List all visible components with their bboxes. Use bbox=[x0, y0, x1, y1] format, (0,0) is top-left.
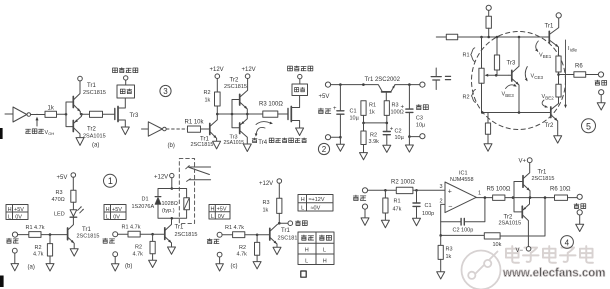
wire top rail left bbox=[331, 85, 383, 92]
circled 2 bbox=[318, 143, 329, 154]
svg-text:≈0V: ≈0V bbox=[311, 205, 321, 211]
svg-text:+: + bbox=[390, 127, 394, 133]
svg-text:R1 10k: R1 10k bbox=[185, 120, 205, 126]
svg-text:L: L bbox=[301, 205, 304, 211]
terminal output bottom bbox=[599, 90, 604, 95]
ground input bbox=[11, 253, 19, 271]
svg-text:Tr1: Tr1 bbox=[87, 83, 96, 89]
wire top rail right bbox=[395, 84, 420, 86]
terminal V+ bbox=[519, 158, 533, 165]
svg-text:+: + bbox=[401, 105, 405, 111]
watermark logo circle bbox=[462, 251, 501, 289]
resistor top bbox=[486, 16, 491, 28]
svg-text:R2 100Ω: R2 100Ω bbox=[391, 180, 415, 186]
svg-text:Tr2: Tr2 bbox=[504, 215, 513, 221]
node wiper bbox=[495, 74, 498, 77]
circled 1 bbox=[104, 174, 117, 187]
svg-text:1S2076A: 1S2076A bbox=[132, 204, 155, 210]
ground Tr1 bbox=[213, 141, 221, 149]
table H/L levels bbox=[104, 205, 126, 221]
wire node R6 bbox=[558, 72, 560, 84]
diode D1 1S2076A bbox=[132, 197, 161, 211]
svg-text:(b): (b) bbox=[125, 264, 132, 270]
svg-text:+5V: +5V bbox=[319, 94, 330, 100]
svg-text:H: H bbox=[323, 258, 327, 264]
node R1 bbox=[362, 83, 365, 86]
wire bbox=[171, 178, 173, 189]
resistor R1 4.7k bbox=[18, 225, 50, 238]
svg-text:L: L bbox=[106, 214, 109, 220]
terminal input bottom bbox=[362, 204, 367, 209]
label 负荷电源 bbox=[288, 66, 313, 71]
resistor gate bbox=[90, 111, 103, 117]
svg-text:C3: C3 bbox=[416, 116, 423, 122]
terminal output bottom bbox=[420, 134, 425, 139]
svg-text:R6: R6 bbox=[575, 64, 583, 70]
node R1 bbox=[384, 189, 387, 192]
svg-text:R2: R2 bbox=[204, 90, 211, 96]
svg-text:0V: 0V bbox=[218, 214, 225, 220]
svg-text:2SA1015: 2SA1015 bbox=[224, 140, 245, 146]
resistor R4 10k feedback bbox=[441, 198, 545, 248]
terminal input bottom bbox=[325, 135, 330, 140]
label R2 brace bbox=[463, 89, 476, 102]
node coil top bbox=[171, 187, 174, 190]
resistor R3 470 ohm bbox=[52, 190, 77, 203]
label 输入 bbox=[318, 108, 331, 113]
wire base bbox=[50, 234, 68, 236]
svg-text:R2: R2 bbox=[239, 245, 246, 251]
node bbox=[518, 111, 521, 114]
svg-text:2: 2 bbox=[322, 145, 327, 154]
svg-text:R3: R3 bbox=[263, 200, 270, 206]
load box 负荷 bbox=[292, 79, 308, 96]
capacitor C1 100p bbox=[413, 190, 434, 218]
resistor input bbox=[446, 34, 457, 40]
node bbox=[151, 233, 154, 236]
svg-text:H: H bbox=[106, 207, 110, 213]
ground Tr2 bbox=[76, 138, 84, 146]
svg-text:R2: R2 bbox=[35, 245, 42, 251]
terminal +12V left bbox=[210, 67, 224, 78]
label 负荷电压 bbox=[113, 68, 138, 73]
terminal output bottom bbox=[577, 210, 582, 215]
relay coil loop wires bbox=[158, 189, 187, 219]
svg-text:470Ω: 470Ω bbox=[52, 197, 65, 203]
label 输入 bbox=[103, 238, 115, 243]
svg-text:(typ.): (typ.) bbox=[162, 208, 175, 214]
ground R2 bbox=[253, 262, 261, 269]
wire bbox=[72, 202, 74, 209]
svg-text:+5V: +5V bbox=[14, 207, 24, 213]
terminal output top bbox=[420, 82, 425, 87]
resistor R2 4.7k bbox=[33, 235, 53, 264]
transistor Tr1 2SC1815 bbox=[68, 227, 100, 249]
node bbox=[386, 122, 389, 125]
svg-text:Tr4: Tr4 bbox=[258, 140, 267, 146]
transistor Tr2 2SC1815 bbox=[224, 78, 248, 115]
LED D bbox=[54, 206, 84, 217]
node C1 bbox=[339, 83, 342, 86]
svg-text:4.7k: 4.7k bbox=[237, 252, 248, 258]
wire base bbox=[257, 234, 270, 236]
svg-text:R1: R1 bbox=[463, 53, 470, 59]
edge mark bottom bbox=[0, 276, 4, 288]
label 给Tr4的栅极充放电 bbox=[252, 138, 306, 146]
node bottom bbox=[408, 135, 411, 138]
ground Tr1 bbox=[70, 249, 78, 256]
svg-text:R1: R1 bbox=[394, 199, 401, 205]
svg-text:10µ: 10µ bbox=[416, 123, 426, 129]
svg-text:(c): (c) bbox=[231, 263, 238, 269]
svg-text:2: 2 bbox=[440, 199, 443, 205]
circled 3 bbox=[160, 85, 171, 96]
wire bases riser bbox=[232, 100, 240, 128]
svg-text:R1: R1 bbox=[369, 103, 376, 109]
wire bbox=[331, 136, 341, 138]
resistor R2 3.9k bbox=[361, 123, 379, 153]
ground lower bbox=[484, 144, 492, 151]
resistor R3 1k bbox=[263, 183, 282, 223]
svg-text:10µ: 10µ bbox=[395, 135, 405, 141]
svg-text:www.elecfans.com: www.elecfans.com bbox=[502, 268, 605, 280]
potentiometer branch R1/R2 bbox=[479, 37, 484, 113]
label R1 brace bbox=[463, 48, 475, 62]
edge mark top bbox=[0, 128, 3, 139]
svg-text:Tr1: Tr1 bbox=[538, 170, 547, 176]
resistor R2 1k bbox=[204, 90, 221, 106]
node C3 bbox=[408, 83, 411, 86]
wire dashed bbox=[166, 128, 187, 130]
resistor R6 bbox=[559, 64, 599, 78]
wire output rail bbox=[476, 197, 554, 199]
resistor R6 10 ohm bbox=[550, 187, 577, 201]
terminal collector Tr1 bbox=[78, 76, 83, 81]
terminal +12V right bbox=[242, 67, 256, 78]
transistor Tr2 2SA1015 bbox=[73, 114, 105, 139]
resistor R1 10k bbox=[185, 120, 205, 133]
svg-text:1: 1 bbox=[478, 191, 481, 197]
transistor Tr1 2SC1815 bbox=[191, 114, 218, 148]
resistor R1 4.7k bbox=[222, 225, 257, 238]
node bbox=[49, 233, 52, 236]
ground input bbox=[111, 257, 119, 271]
node R3 bbox=[439, 234, 442, 237]
svg-text:Tr3: Tr3 bbox=[130, 113, 139, 119]
ground output bbox=[576, 215, 584, 232]
node R4 bbox=[544, 196, 547, 199]
dashed equivalent circle bbox=[472, 32, 566, 130]
ground Tr2 bbox=[554, 136, 562, 143]
capacitor C2 100p feedback bbox=[441, 198, 485, 234]
resistor 1k bbox=[45, 106, 57, 118]
node C1 bbox=[415, 189, 418, 192]
wire top rail bbox=[458, 36, 550, 38]
svg-text:R1 4.7k: R1 4.7k bbox=[225, 225, 244, 231]
node bbox=[487, 36, 490, 39]
watermark text 电子发烧友 bbox=[506, 246, 593, 263]
terminal +5V input bbox=[319, 82, 331, 100]
svg-text:1k: 1k bbox=[205, 98, 211, 104]
wire input bbox=[5, 113, 13, 115]
label 输入 bbox=[7, 238, 19, 243]
svg-text:Tr2: Tr2 bbox=[545, 123, 554, 129]
svg-text:+12V: +12V bbox=[154, 175, 168, 181]
svg-text:H: H bbox=[211, 207, 215, 213]
terminal top bbox=[486, 5, 491, 10]
wire emitters to gate resistor bbox=[82, 113, 90, 115]
svg-text:BE3: BE3 bbox=[505, 93, 514, 98]
op-amp IC1 NJM4558 bbox=[440, 171, 482, 213]
terminal input lower bbox=[113, 252, 118, 257]
node emitters bbox=[80, 113, 83, 116]
end-of-article square bbox=[301, 271, 306, 277]
label 输入 bbox=[207, 239, 219, 244]
terminal +12V bbox=[259, 179, 282, 187]
transistor Tr1 bbox=[545, 18, 559, 56]
wire output bbox=[279, 222, 288, 224]
wire bbox=[31, 113, 45, 115]
label 输出 bbox=[574, 203, 586, 208]
terminal input bbox=[217, 232, 222, 237]
svg-text:L: L bbox=[211, 214, 214, 220]
table truth bbox=[298, 232, 334, 265]
svg-text:R3: R3 bbox=[56, 190, 63, 196]
svg-text:BE2: BE2 bbox=[545, 95, 554, 100]
relay outline dashed bbox=[179, 159, 194, 224]
terminal input top bbox=[362, 188, 367, 193]
label 输出 bbox=[296, 220, 308, 225]
svg-text:NJM4558: NJM4558 bbox=[450, 177, 474, 183]
wire bottom rail bbox=[482, 112, 551, 114]
label VBE3 arc bbox=[502, 84, 517, 98]
label 输出 bbox=[416, 104, 428, 109]
ground output bbox=[597, 95, 605, 110]
terminal 负荷电源 bbox=[298, 74, 302, 78]
relay contact bbox=[186, 166, 211, 182]
resistor R3 1k bbox=[438, 235, 452, 271]
ground Tr4 bbox=[296, 128, 304, 136]
wire junction bbox=[364, 115, 387, 123]
svg-text:10µ: 10µ bbox=[350, 116, 360, 122]
charge arrow upper bbox=[256, 122, 273, 125]
svg-text:R2: R2 bbox=[370, 133, 377, 139]
svg-text:R5 100Ω: R5 100Ω bbox=[487, 187, 511, 193]
node base junction bbox=[65, 113, 68, 116]
resistor R3 100 ohm bbox=[384, 101, 404, 116]
transistor Tr1 2SC1815 bbox=[165, 218, 198, 247]
wire main rail bbox=[217, 113, 262, 115]
ground R2 bbox=[360, 153, 368, 160]
resistor R5 100 ohm bbox=[487, 187, 511, 201]
label 高电平 VOH with arrow bbox=[26, 117, 55, 136]
wire input bbox=[142, 128, 149, 130]
svg-text:R1 4.7k: R1 4.7k bbox=[122, 224, 141, 230]
svg-text:C2: C2 bbox=[395, 129, 402, 135]
wire bbox=[201, 128, 210, 130]
wire bases riser bbox=[513, 182, 523, 212]
svg-text:BE1: BE1 bbox=[543, 54, 552, 59]
resistor R1 4.7k bbox=[118, 224, 153, 237]
node coil bottom bbox=[171, 217, 174, 220]
svg-text:Tr1: Tr1 bbox=[175, 225, 184, 231]
svg-text:0V: 0V bbox=[113, 214, 120, 220]
load box 负荷 bbox=[117, 80, 135, 98]
svg-text:1k: 1k bbox=[48, 106, 55, 112]
svg-text:Tr2: Tr2 bbox=[230, 78, 239, 84]
transistor Tr1 2SC1815 bbox=[270, 223, 301, 247]
svg-text:Tr3: Tr3 bbox=[507, 61, 516, 67]
resistor R1 1k bbox=[361, 101, 376, 116]
svg-text:1k: 1k bbox=[263, 207, 269, 213]
svg-text:R2: R2 bbox=[135, 244, 142, 250]
table H/L levels bbox=[6, 205, 28, 221]
svg-text:0V: 0V bbox=[15, 214, 22, 220]
label 1028 ohm typ bbox=[162, 201, 178, 214]
svg-text:2SC1815: 2SC1815 bbox=[224, 84, 247, 90]
ground input bbox=[336, 137, 344, 151]
resistor R1 47k bbox=[383, 190, 402, 220]
wire input left bbox=[436, 36, 446, 38]
svg-text:2SA1015: 2SA1015 bbox=[499, 221, 522, 227]
svg-text:+5V: +5V bbox=[217, 207, 227, 213]
svg-text:2SC1815: 2SC1815 bbox=[77, 234, 100, 240]
ground R1 bbox=[381, 220, 389, 227]
inverter gate U1 bbox=[13, 107, 31, 122]
ground Tr3 bbox=[121, 127, 129, 135]
wire to Tr3 base bbox=[496, 74, 509, 76]
svg-text:(a): (a) bbox=[28, 265, 35, 271]
svg-text:V+: V+ bbox=[519, 159, 527, 165]
svg-text:+: + bbox=[333, 106, 337, 112]
svg-text:C2 100p: C2 100p bbox=[453, 228, 474, 234]
charge arrow lower bbox=[255, 127, 265, 136]
middle branch resistor bbox=[494, 37, 499, 75]
wire bbox=[409, 136, 419, 138]
svg-text:1028Ω: 1028Ω bbox=[162, 201, 178, 207]
ground R3 bbox=[437, 272, 445, 279]
svg-text:(a): (a) bbox=[92, 143, 99, 149]
node emitters bbox=[246, 113, 249, 116]
wire bbox=[72, 177, 74, 190]
table H/L input levels bbox=[209, 205, 230, 220]
current Iidle arrow bbox=[564, 40, 577, 108]
ground Tr1 bbox=[273, 247, 281, 254]
transistor Tr2 2SA1015 bbox=[499, 198, 530, 247]
svg-text:≈+12V: ≈+12V bbox=[309, 197, 325, 203]
capacitor C3 10u bbox=[401, 85, 427, 137]
svg-text:+5V: +5V bbox=[112, 207, 122, 213]
svg-text:1k: 1k bbox=[369, 110, 375, 116]
wire bbox=[413, 189, 445, 191]
battery equivalence symbol bbox=[431, 68, 450, 90]
node bases bbox=[512, 196, 515, 199]
svg-text:4: 4 bbox=[565, 238, 570, 247]
wire bbox=[278, 113, 288, 115]
svg-text:LED: LED bbox=[54, 212, 65, 218]
node bbox=[216, 113, 219, 116]
resistor emitter upper bbox=[556, 56, 561, 72]
svg-text:R3 100Ω: R3 100Ω bbox=[259, 102, 283, 108]
terminal output top bbox=[577, 194, 582, 199]
svg-text:100p: 100p bbox=[422, 211, 434, 217]
wire bbox=[57, 113, 67, 115]
svg-text:2SC1815: 2SC1815 bbox=[83, 90, 106, 96]
label 输入 bbox=[353, 195, 366, 200]
resistor R2 100 ohm bbox=[391, 180, 415, 194]
resistor R2 4.7k bbox=[133, 234, 156, 260]
transistor Tr1 2SC2002 bbox=[365, 77, 401, 101]
svg-text:+5V: +5V bbox=[57, 175, 68, 181]
svg-text:idle: idle bbox=[570, 48, 578, 53]
node bbox=[480, 36, 483, 39]
wire inverting input bbox=[441, 204, 445, 235]
svg-text:OH: OH bbox=[48, 131, 54, 136]
ground output bbox=[405, 137, 413, 153]
svg-text:2SC1815: 2SC1815 bbox=[191, 142, 214, 148]
resistor emitter lower bbox=[556, 84, 561, 97]
svg-text:Tr1: Tr1 bbox=[82, 227, 91, 233]
terminal output bbox=[288, 221, 293, 226]
transistor Tr4 MOSFET bbox=[288, 96, 300, 129]
svg-text:10k: 10k bbox=[493, 242, 502, 248]
terminal input bbox=[113, 232, 118, 237]
transistor Tr3 MOSFET bbox=[115, 98, 139, 127]
svg-text:C1: C1 bbox=[425, 203, 432, 209]
label VCE3 arc bbox=[525, 67, 544, 82]
table output levels bbox=[298, 195, 333, 212]
svg-text:4.7k: 4.7k bbox=[133, 251, 144, 257]
svg-text:C1: C1 bbox=[350, 109, 357, 115]
terminal input bbox=[12, 232, 17, 237]
ground C1 bbox=[413, 218, 421, 225]
inverter gate bbox=[148, 122, 166, 136]
node bbox=[481, 111, 484, 114]
svg-text:H: H bbox=[305, 248, 309, 254]
svg-text:+12V: +12V bbox=[242, 67, 256, 73]
svg-text:−: − bbox=[448, 204, 452, 211]
terminal 负荷电压 bbox=[124, 76, 128, 80]
terminal input lower bbox=[12, 248, 17, 253]
ground R2 bbox=[149, 260, 157, 267]
node bbox=[256, 234, 259, 237]
terminal +12V bbox=[154, 173, 174, 180]
svg-text:Tr1: Tr1 bbox=[545, 24, 554, 30]
svg-text:R3: R3 bbox=[446, 247, 453, 253]
transistor Tr3 bbox=[507, 37, 520, 113]
wiper arrow bbox=[485, 74, 496, 77]
terminal input lower bbox=[217, 252, 222, 257]
wire base riser bbox=[66, 102, 73, 127]
node bbox=[339, 136, 342, 139]
node bbox=[484, 196, 487, 199]
terminal +5V bbox=[57, 173, 76, 181]
wire bbox=[216, 79, 218, 93]
svg-text:5: 5 bbox=[586, 121, 591, 131]
svg-text:3: 3 bbox=[440, 184, 443, 190]
svg-text:L: L bbox=[8, 214, 11, 220]
resistor R2 4.7k bbox=[237, 235, 260, 262]
svg-text:2SC1815: 2SC1815 bbox=[175, 232, 198, 238]
wire bbox=[68, 218, 74, 230]
transistor Tr1 2SC1815 bbox=[73, 81, 106, 114]
ground R2 bbox=[46, 264, 54, 271]
svg-text:D1: D1 bbox=[142, 197, 149, 203]
node bbox=[518, 36, 521, 39]
ground input bbox=[361, 209, 369, 225]
svg-text:V−: V− bbox=[516, 248, 524, 254]
svg-text:1k: 1k bbox=[446, 254, 452, 260]
